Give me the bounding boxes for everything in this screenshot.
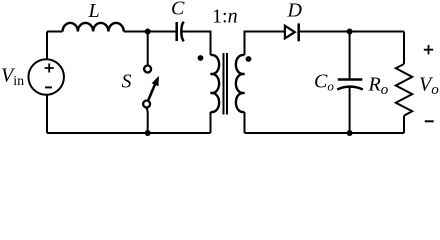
svg-text:Ro: Ro	[368, 74, 389, 99]
source plus sign	[45, 64, 54, 73]
wire secondary bottom terminal	[244, 112, 246, 133]
wire secondary top terminal	[245, 32, 285, 56]
capacitor Co curved bottom plate	[337, 87, 363, 90]
wire left rail top	[46, 32, 48, 60]
resistor Ro zigzag	[396, 64, 412, 116]
source Vin	[28, 59, 64, 95]
svg-text:L: L	[88, 0, 100, 22]
svg-text:D: D	[287, 0, 303, 22]
wire switch branch upper	[147, 32, 149, 65]
wire bottom right segment	[245, 132, 405, 134]
transformer core	[224, 53, 228, 115]
diode D triangle	[285, 26, 295, 39]
wire right branch bottom	[403, 116, 405, 133]
svg-text:1:n: 1:n	[212, 6, 238, 28]
switch S lower contact	[143, 101, 150, 108]
wire switch branch lower	[147, 108, 148, 134]
wire Co branch bottom	[349, 87, 351, 133]
wire left rail bottom	[46, 95, 48, 133]
wire right branch top	[403, 32, 405, 65]
inductor L	[63, 23, 124, 32]
svg-text:S: S	[122, 71, 132, 93]
transformer secondary winding	[236, 55, 245, 112]
node Co top junction dot	[347, 29, 353, 35]
wire cap to transformer	[182, 32, 211, 56]
wire inductor to node	[124, 31, 176, 33]
switch S blade	[148, 82, 156, 100]
wire diode to corner	[299, 31, 404, 33]
transformer primary dot	[198, 55, 204, 61]
switch S arrowhead	[152, 76, 159, 86]
wire bottom left segment	[47, 132, 211, 134]
capacitor C right curved plate	[181, 22, 183, 41]
svg-text:Vo: Vo	[419, 74, 439, 99]
svg-text:Co: Co	[314, 70, 334, 93]
transformer secondary dot	[246, 56, 252, 62]
wire top left	[47, 31, 63, 33]
node A junction dot	[145, 29, 151, 35]
wire primary bottom terminal	[210, 112, 212, 133]
svg-text:Vin: Vin	[1, 65, 24, 90]
switch S upper contact	[144, 66, 151, 73]
Vo plus sign	[424, 45, 433, 54]
capacitor Co top plate	[338, 78, 363, 81]
diode D cathode bar	[297, 23, 300, 41]
node switch bottom junction dot	[145, 130, 151, 136]
Vo minus sign	[425, 120, 434, 122]
node Co bottom junction dot	[347, 130, 353, 136]
wire Co branch top	[349, 32, 351, 80]
svg-text:C: C	[171, 0, 185, 20]
source minus sign	[45, 86, 52, 88]
transformer primary winding	[211, 55, 220, 112]
capacitor C left plate	[175, 22, 178, 41]
